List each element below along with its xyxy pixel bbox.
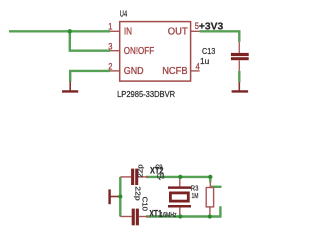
op-amp U4 body LP2985-33DBVR regulator [120,22,191,82]
junction dot XT1 R3 [208,214,212,218]
wire R3 top connection [209,177,211,183]
wire XT1 net bottom run [146,215,210,217]
junction dot input net [68,29,72,33]
svg-text:1: 1 [108,22,112,33]
svg-text:ON!OFF: ON!OFF [124,46,154,57]
svg-text:C9: C9 [155,163,162,172]
svg-text:NCFB: NCFB [162,66,188,77]
capacitor C13 [231,42,249,71]
pin 1 stub U4 [110,30,120,32]
junction dot ground mid [118,194,122,198]
wire XT2 net left vertical [119,177,121,217]
pin 2 stub U4 [110,70,120,72]
svg-text:OUT: OUT [168,26,188,37]
resistor R3 [206,182,213,217]
wire XT2 net top run [146,176,210,178]
junction dot XT2 crystal [178,175,182,179]
wire branch to pin ON!OFF [70,31,110,50]
wire XT2 stub to right [210,186,221,188]
junction dot XT1 crystal [178,214,182,218]
wire XT1 stub to right [210,206,221,216]
wire +3V3 output [200,31,240,42]
wire C13 to ground [238,71,240,83]
svg-text:16MHz: 16MHz [160,210,177,219]
svg-text:IN: IN [124,26,132,37]
pin 5 stub U4 [191,30,200,32]
capacitor C10 [120,209,148,226]
svg-text:C13: C13 [202,47,216,56]
capacitor C9 [120,169,148,185]
pin 3 stub U4 [110,50,120,52]
svg-text:2: 2 [108,61,112,72]
ground GND1 [62,82,78,92]
svg-text:3: 3 [108,41,112,52]
wire net input to pin IN [9,30,110,32]
wire GND pin to ground [70,71,110,82]
crystal Q3 [168,177,191,217]
svg-text:Q3: Q3 [157,171,164,180]
ground GND2 [232,82,249,91]
svg-text:22p: 22p [135,164,144,177]
pin 4 stub U4 [191,70,200,72]
svg-text:GND: GND [124,66,144,77]
svg-text:1u: 1u [200,57,209,66]
ground GND3 [110,189,121,204]
svg-text:U4: U4 [120,10,128,19]
svg-text:C10: C10 [141,197,150,211]
svg-text:1M: 1M [192,191,199,200]
svg-text:LP2985-33DBVR: LP2985-33DBVR [117,90,175,99]
junction dot XT2 R3 [208,175,212,179]
